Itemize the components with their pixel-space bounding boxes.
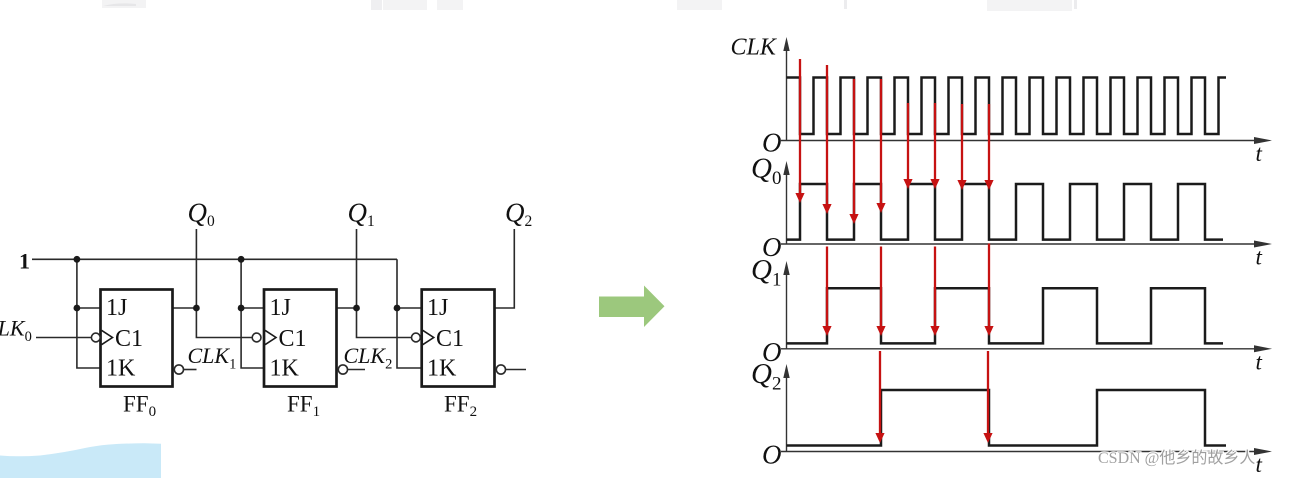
wire Q0 to CLK1 — [196, 229, 252, 338]
Q' bubble FF1 — [338, 365, 347, 374]
svg-text:O: O — [762, 440, 782, 470]
node J1 — [238, 305, 245, 312]
wire arrow t2 — [853, 79, 855, 216]
svg-text:C1: C1 — [436, 326, 464, 352]
wire Q0 output — [173, 307, 197, 309]
wire Q2 output — [495, 229, 515, 308]
wire arrow Q0-Q1 d — [988, 244, 990, 329]
wire rail drop FF1 — [241, 259, 264, 368]
Q1 vertical axis — [786, 272, 788, 349]
svg-text:1: 1 — [19, 249, 30, 274]
node J2 — [394, 305, 401, 312]
waveform Q2 — [787, 390, 1227, 446]
wire arrow t7 — [988, 104, 990, 182]
dynamic clock triangle FF0 — [102, 330, 113, 344]
wire CLK0 input — [36, 337, 91, 339]
svg-text:CSDN @他乡的故乡人: CSDN @他乡的故乡人 — [1098, 449, 1255, 467]
svg-text:O: O — [762, 128, 782, 158]
light blue blob bottom-left — [0, 443, 161, 478]
top edge faint cropped-text smudges — [102, 0, 1077, 11]
CLK vertical axis arrowhead — [783, 37, 789, 51]
Q1 horizontal axis — [781, 348, 1256, 350]
flip-flop FF2 box — [422, 290, 495, 387]
Q0 vertical axis arrowhead — [783, 161, 789, 175]
svg-text:t: t — [1256, 141, 1263, 166]
node rail-FF1 — [238, 256, 245, 263]
node junction dots — [74, 256, 401, 312]
CLK vertical axis — [786, 48, 788, 141]
Q2 vertical axis arrowhead — [783, 364, 789, 378]
node rail-FF0 — [74, 256, 81, 263]
wire Q1 output — [337, 307, 357, 309]
svg-text:t: t — [1256, 245, 1263, 270]
dynamic clock triangle FF1 — [265, 330, 276, 344]
svg-text:t: t — [1256, 452, 1263, 477]
svg-text:C1: C1 — [279, 326, 307, 352]
red trigger arrows CLK to Q0 — [795, 59, 993, 443]
wire arrow t5 — [934, 103, 936, 181]
wire arrow Q0-Q1 b — [880, 247, 882, 329]
wire J1 — [241, 307, 264, 309]
svg-text:1K: 1K — [106, 356, 136, 382]
wire J0 — [77, 307, 101, 309]
CLK horizontal axis — [781, 140, 1256, 142]
node 1 (logic-1 rail) — [32, 258, 397, 260]
waveform Q0 — [787, 184, 1224, 240]
svg-text:1J: 1J — [270, 295, 291, 321]
clock bubble FF0 — [91, 333, 100, 342]
wire Q1 to CLK2 — [357, 229, 412, 338]
node Q1 — [353, 305, 360, 312]
dynamic clock triangle FF2 — [423, 330, 434, 344]
Q' bubble FF2 — [496, 365, 505, 374]
svg-text:1J: 1J — [427, 295, 448, 321]
wire rail drop FF2 — [397, 259, 422, 368]
wire arrow Q1-Q2 b — [987, 351, 989, 435]
Q2 vertical axis — [786, 375, 788, 452]
svg-text:1K: 1K — [270, 356, 300, 382]
wire Q'1 stub — [347, 369, 365, 371]
svg-text:1K: 1K — [427, 356, 457, 382]
Q2 horizontal axis — [781, 451, 1256, 453]
wire Q'2 stub — [505, 369, 526, 371]
CLK horizontal axis arrowhead — [1254, 137, 1272, 144]
green arrow — [599, 286, 665, 328]
wire arrow t3 — [880, 79, 882, 205]
axes — [781, 48, 1256, 452]
node Q0 — [193, 305, 200, 312]
node J0 — [74, 305, 81, 312]
Q0 horizontal axis arrowhead — [1254, 241, 1272, 248]
wire arrow Q0-Q1 c — [934, 247, 936, 329]
Q1 horizontal axis arrowhead — [1254, 345, 1272, 352]
svg-text:1J: 1J — [106, 295, 127, 321]
Q1 vertical axis arrowhead — [783, 261, 789, 275]
Q0 vertical axis — [786, 172, 788, 245]
flip-flop FF0 box — [101, 290, 173, 387]
wire arrow Q1-Q2 a — [879, 351, 881, 435]
svg-text:t: t — [1256, 349, 1263, 374]
wire rail drop FF0 — [77, 259, 101, 368]
wire J2 — [397, 307, 422, 309]
Q2 horizontal axis arrowhead — [1254, 448, 1272, 455]
flip-flop FF1 box — [264, 290, 337, 387]
svg-text:C1: C1 — [115, 326, 143, 352]
svg-text:O: O — [762, 337, 782, 367]
wire arrow t0 — [799, 59, 801, 195]
wire arrow Q0-Q1 a — [826, 247, 828, 329]
wire arrow t4 — [907, 103, 909, 181]
Q0 horizontal axis — [781, 243, 1256, 245]
svg-text:CLK: CLK — [731, 35, 778, 61]
wire arrow t1 — [826, 65, 828, 206]
svg-text:O: O — [762, 232, 782, 262]
clock bubble FF2 — [412, 333, 421, 342]
wire Q'0 stub — [183, 369, 196, 371]
wire arrow t6 — [961, 104, 963, 182]
Q' bubble FF0 — [174, 365, 183, 374]
clock bubble FF1 — [252, 333, 261, 342]
waveform CLK — [787, 78, 1227, 135]
waveform Q1 — [787, 288, 1224, 343]
